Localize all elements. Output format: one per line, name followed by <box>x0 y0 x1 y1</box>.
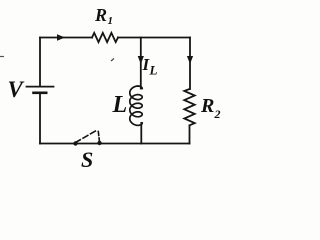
svg-text:S: S <box>81 147 93 172</box>
wire bottom segment right <box>99 143 190 145</box>
wire right branch lower <box>189 126 191 144</box>
svg-text:L: L <box>112 92 128 118</box>
wire left branch lower <box>39 94 41 144</box>
wire middle branch upper <box>140 38 142 89</box>
arrow on right branch <box>187 56 193 64</box>
inductor L coil <box>130 86 142 125</box>
wire top-left segment <box>40 37 92 39</box>
arrow I_L on middle branch <box>138 56 144 64</box>
current arrow on top wire <box>57 34 65 40</box>
switch pivot junction dot <box>73 141 77 145</box>
svg-text:1: 1 <box>108 15 114 27</box>
switch contact junction dot <box>97 141 101 145</box>
switch S blade (dashed) <box>76 130 98 143</box>
svg-text:R: R <box>94 5 107 25</box>
svg-text:2: 2 <box>214 107 221 121</box>
wire top-right segment <box>118 37 190 39</box>
wire bottom middle segment under switch <box>76 143 99 145</box>
battery V long plate <box>27 86 54 88</box>
resistor R2 <box>184 89 194 125</box>
scan speck left edge <box>0 56 4 58</box>
svg-text:L: L <box>149 63 158 78</box>
wire middle branch lower <box>140 123 142 144</box>
svg-text:V: V <box>8 77 25 102</box>
scan speck near R1 end <box>111 59 114 62</box>
battery V (source) short plate <box>34 92 47 95</box>
resistor R1 <box>92 33 118 42</box>
wire bottom segment left <box>40 143 76 145</box>
wire left branch upper <box>39 38 41 87</box>
switch S contact drop (dashed) <box>98 132 99 142</box>
wire right branch upper <box>189 38 191 90</box>
svg-text:R: R <box>200 95 214 117</box>
